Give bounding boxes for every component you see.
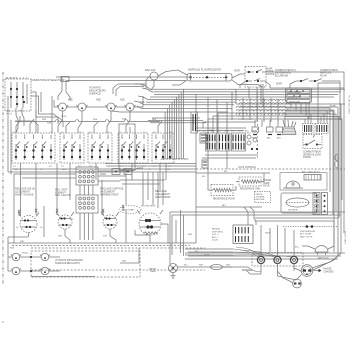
connector P2 (control board): [76, 195, 98, 213]
svg-text:ECLAIRAGE: ECLAIRAGE: [275, 74, 289, 77]
label wire tags above relays: [196, 131, 257, 133]
svg-text:DESSERRAGE: DESSERRAGE: [275, 72, 291, 75]
svg-text:L1&N: L1&N: [212, 240, 218, 242]
svg-text:PORTE: PORTE: [267, 74, 275, 76]
mark bottom-left: [2, 321, 4, 323]
svg-text:N2E: N2E: [93, 119, 98, 121]
sonde dome RT1: [283, 181, 303, 188]
masse chassis plug P3: [301, 265, 321, 277]
fluorescent lamp FL1: [187, 71, 240, 82]
wire lamp row connections: [54, 96, 143, 133]
pin strip J2: [322, 193, 328, 215]
terminal stud T1: [257, 247, 264, 271]
indicator lamp DS3: [106, 103, 117, 111]
svg-text:N2E: N2E: [122, 119, 127, 121]
svg-text:(2): (2): [40, 227, 43, 229]
relay header RY2: [218, 133, 230, 151]
svg-text:RELAIS: RELAIS: [212, 228, 220, 231]
svg-text:AMPOULE: AMPOULE: [320, 72, 332, 75]
svg-text:VERROUILLAGE: VERROUILLAGE: [303, 153, 321, 156]
thermal cutout K1: [18, 210, 20, 216]
svg-text:N2E: N2E: [47, 123, 52, 125]
wire relay buses: [185, 234, 345, 259]
component dark block 1: [200, 133, 208, 143]
svg-text:BLC: BLC: [222, 205, 227, 207]
wire switch to elements: [21, 163, 167, 205]
ballast B1: [145, 69, 187, 90]
label ar cond: [302, 171, 321, 174]
wire P1-P2 links: [80, 185, 93, 195]
svg-text:N2E: N2E: [226, 265, 231, 267]
svg-text:BLC: BLC: [203, 131, 207, 133]
wire S3 to right rail: [290, 81, 340, 124]
wire plug drops: [255, 112, 285, 127]
svg-text:NOIR: NOIR: [61, 116, 67, 118]
label ampoule fluorescente: [188, 69, 222, 72]
svg-text:RESISTANCE GRIL: RESISTANCE GRIL: [240, 188, 261, 191]
label N2E lamp row: [68, 99, 145, 105]
wire crossover scallops: [236, 99, 289, 115]
connector strip right: [304, 175, 321, 181]
svg-text:MOTEUR: MOTEUR: [288, 210, 298, 212]
svg-text:N2E: N2E: [199, 265, 204, 267]
label ventilateur attenant: [283, 225, 337, 238]
commutateur element 1 (double, dashed box): [12, 132, 55, 168]
svg-text:BALLAST: BALLAST: [145, 69, 156, 72]
wire right buses: [236, 104, 345, 119]
label verrouillage: [303, 151, 321, 160]
wire bus under switches: [8, 159, 196, 173]
wire P1 leads right: [98, 168, 143, 181]
label relais: [212, 228, 224, 242]
label E1: [16, 227, 43, 229]
switch S3 eclairage: [296, 79, 331, 83]
connector block CB1: [303, 124, 314, 134]
tall enclosure clock-bypass: [119, 124, 135, 170]
wire element row: [8, 205, 196, 246]
wire right column extensions: [330, 125, 339, 218]
connector fan (hatched): [282, 120, 297, 135]
element surface E3: [101, 212, 119, 229]
connector plugs row (noir): [252, 127, 283, 140]
label sonde temp: [263, 180, 272, 188]
wire P1 leads left: [14, 174, 76, 237]
svg-text:COMMUTATEUR: COMMUTATEUR: [303, 151, 321, 154]
thermal cutout K2: [35, 209, 37, 215]
wire ampoule leads: [295, 221, 334, 249]
svg-text:SURFACE BRULANTS: SURFACE BRULANTS: [55, 262, 80, 265]
element surface E4 (heavy): [137, 210, 163, 235]
indicator lamp DS4: [125, 103, 136, 111]
thermal cutout K3: [56, 209, 58, 215]
component small circles right of relays: [247, 135, 258, 150]
wire verticals through scallops: [243, 98, 278, 122]
svg-text:NOIR: NOIR: [267, 69, 273, 71]
svg-text:FOUR: FOUR: [320, 75, 327, 77]
stud extra: [292, 259, 294, 261]
wire relay S-curves: [244, 207, 256, 225]
svg-text:AVANT DROIT: AVANT DROIT: [155, 196, 171, 199]
wire section divider dashed: [257, 92, 259, 160]
svg-text:AR. COND. AV. PL.: AR. COND. AV. PL.: [302, 171, 321, 174]
component dark block 2: [202, 160, 208, 168]
label left captage: [55, 189, 71, 198]
wire voyants to motor: [120, 248, 139, 263]
label reglage avant gauche: [15, 188, 35, 197]
svg-text:P(1)B: P(1)B: [22, 253, 28, 255]
voyant brulant L1: [11, 253, 21, 261]
svg-text:TEMP.: TEMP.: [263, 183, 270, 185]
wire steps to relay headers: [203, 113, 256, 133]
label voyants brulants: [55, 259, 83, 265]
label fil secteur (rotated): [344, 95, 350, 245]
wire harness left verticals: [140, 89, 184, 159]
label switch-row wires: [42, 116, 157, 121]
commutateur selecteur S1 (top-left, dashed box with contacts): [5, 77, 31, 115]
svg-text:SOL. 1: SOL. 1: [212, 234, 220, 236]
svg-text:NOIR: NOIR: [238, 131, 243, 133]
wire top bus L1: [56, 77, 189, 100]
svg-text:ARR. GAUCHE: ARR. GAUCHE: [55, 194, 71, 197]
voyant brulant L2: [11, 267, 21, 275]
svg-text:NO: NO: [7, 111, 10, 113]
label P1 noir: [100, 174, 106, 176]
svg-text:BLC: BLC: [224, 171, 229, 173]
svg-text:N2E: N2E: [120, 99, 125, 102]
svg-text:BLC: BLC: [277, 138, 281, 140]
svg-text:HAU. PUITS: HAU. PUITS: [300, 235, 313, 238]
svg-text:PORTE: PORTE: [303, 157, 311, 159]
svg-text:N2E: N2E: [188, 234, 193, 236]
svg-text:P1 P2: P1 P2: [6, 114, 13, 116]
voyants brulants enclosure: [31, 248, 205, 277]
svg-text:RESISTANCE FOUR: RESISTANCE FOUR: [213, 198, 235, 201]
wire band through bundle: [148, 118, 206, 123]
commutateur verrouillage porte S4: [303, 135, 322, 149]
label interrupteur: [267, 69, 275, 76]
thermal cutout K5: [122, 205, 124, 211]
wire top-left drop: [41, 92, 52, 112]
svg-text:BLC: BLC: [267, 138, 271, 140]
wire relay area links: [196, 128, 258, 158]
wire door switch leads down: [249, 84, 263, 107]
thermal cutout K4: [102, 209, 104, 215]
label protecteur: [141, 206, 156, 208]
svg-text:P2E: P2E: [103, 236, 107, 238]
wire lamp feeders right: [113, 84, 146, 96]
svg-text:SONDE: SONDE: [263, 180, 272, 182]
wire clock right horizontals: [285, 106, 342, 201]
svg-text:N2E: N2E: [42, 119, 47, 121]
svg-text:BLC: BLC: [295, 247, 300, 249]
resistance gril R1: [239, 177, 261, 191]
wire harness right drops: [196, 89, 236, 243]
svg-text:CARR.: CARR.: [150, 270, 157, 273]
wire studs to rails: [261, 225, 294, 252]
terminal stud T2: [274, 247, 281, 271]
wire mid buses: [170, 210, 345, 264]
svg-text:NOIR: NOIR: [252, 131, 257, 133]
commutateur element 4: [118, 132, 148, 168]
svg-text:N2E: N2E: [58, 236, 63, 238]
horloge A1 (clock block): [286, 88, 312, 104]
svg-text:COMMUTATEUR SELECTEUR: COMMUTATEUR SELECTEUR: [31, 79, 65, 82]
svg-text:N2E: N2E: [68, 99, 73, 102]
wire resistor leads: [196, 167, 345, 207]
wire left rail segment: [8, 96, 11, 175]
ventilation tournebroche box: [255, 192, 271, 203]
label bornier: [242, 270, 253, 272]
label element tags: [20, 219, 107, 243]
label voyants surface: [89, 87, 106, 96]
svg-text:AMPOULE: AMPOULE: [318, 257, 329, 260]
svg-text:N2E: N2E: [96, 99, 101, 102]
svg-text:SURFACE: SURFACE: [89, 92, 101, 95]
wire twist symbols: [335, 154, 338, 167]
svg-text:BLC: BLC: [247, 133, 251, 135]
wire top bus L2: [66, 81, 186, 101]
svg-text:MASSE: MASSE: [324, 268, 333, 271]
component bar block left: [191, 112, 198, 133]
svg-text:ARRIERE DROIT: ARRIERE DROIT: [100, 193, 119, 196]
svg-text:BLC: BLC: [231, 131, 235, 133]
label commutateur ampoule four: [320, 69, 338, 77]
svg-text:AUT. L: AUT. L: [212, 236, 219, 239]
svg-text:VENTILATEUR: VENTILATEUR: [300, 230, 315, 233]
ampoule four E5: [315, 246, 329, 260]
wire harness right horizontals: [165, 89, 345, 112]
label commutateur eclairage: [275, 69, 296, 77]
masse chassis plug P4: [278, 271, 302, 288]
commutateur element 2: [60, 132, 84, 168]
svg-text:PROTECTEUR: PROTECTEUR: [141, 206, 156, 208]
relay header RY3: [232, 133, 246, 151]
svg-text:NOIR: NOIR: [234, 71, 240, 73]
svg-text:NOIR: NOIR: [276, 84, 282, 86]
wire bottom-right links: [246, 240, 341, 280]
terminal stud T3: [290, 247, 297, 271]
bornier terminal block: [252, 253, 303, 267]
svg-text:N2E: N2E: [122, 261, 127, 263]
svg-text:COMMUTATEUR: COMMUTATEUR: [320, 69, 338, 72]
svg-text:FIL DU SECT.: FIL DU SECT.: [344, 231, 346, 245]
wire fluorescent leads: [172, 74, 262, 87]
svg-text:BLC: BLC: [184, 265, 189, 267]
svg-text:CHASSIS: CHASSIS: [324, 270, 335, 273]
svg-text:NOIR: NOIR: [196, 131, 201, 133]
label reglage avant droit: [155, 190, 171, 199]
component fuses mid: [112, 169, 132, 175]
wire right rails: [334, 75, 344, 252]
label switch-row bottom: [14, 169, 171, 171]
svg-text:N1E: N1E: [10, 248, 15, 250]
svg-text:NO: NO: [202, 176, 206, 178]
wire left dash-dot rail: [2, 72, 4, 285]
wire voyants: [8, 237, 205, 277]
pin strip J1: [313, 193, 320, 215]
limite temp ellipse: [119, 206, 141, 214]
voyant brulant L3: [40, 253, 50, 261]
wire S1 side corners: [15, 92, 63, 133]
voyant brulant L4: [40, 267, 50, 275]
svg-text:FIL DU SECTEUR: FIL DU SECTEUR: [348, 95, 350, 114]
svg-text:BROCHE: BROCHE: [256, 199, 266, 201]
svg-text:ATT. FOUR: ATT. FOUR: [300, 233, 312, 236]
label masse chassis: [324, 268, 335, 274]
wire S1 outputs: [7, 108, 24, 133]
wire P2 drops: [80, 213, 93, 240]
wire mid drops to elements: [120, 172, 165, 208]
svg-text:NOIR: NOIR: [265, 233, 271, 235]
resistance four R2: [211, 185, 235, 201]
enclosure dome-strip: [280, 173, 327, 191]
wire drops to CB blocks: [305, 111, 327, 124]
svg-text:FOUR: FOUR: [263, 186, 270, 188]
svg-text:COMMUTATEUR (1): COMMUTATEUR (1): [275, 69, 296, 72]
label S1: [31, 77, 69, 83]
relay contact box K5: [233, 225, 253, 244]
svg-text:AVANT GAUCHE: AVANT GAUCHE: [15, 193, 34, 196]
svg-text:BLC: BLC: [217, 131, 221, 133]
connector P1 (control board): [76, 167, 98, 185]
wire door switch to right rail: [240, 72, 344, 88]
element surface E2: [56, 212, 74, 229]
wire motor line: [178, 264, 249, 269]
commutateur element 3: [88, 132, 112, 168]
element surface E1: [18, 213, 39, 233]
svg-text:N2E: N2E: [152, 119, 157, 121]
convection motor box: [281, 193, 317, 213]
wire terminal fan: [185, 247, 291, 272]
svg-text:N2E: N2E: [209, 130, 214, 132]
label masse moteur: [149, 268, 157, 274]
svg-text:DISP-ENCL: DISP-ENCL: [212, 231, 224, 233]
svg-text:AMPOULE FLUORESCENTE: AMPOULE FLUORESCENTE: [188, 69, 222, 72]
commutateur element 5: [152, 132, 174, 168]
svg-text:LOCK CONTROL: LOCK CONTROL: [238, 167, 257, 169]
indicator lamp DS2: [77, 103, 88, 111]
moteur ventilateur M1: [169, 264, 178, 273]
ground chassis M1: [171, 273, 176, 279]
indicator lamp DS1: [57, 103, 68, 111]
interrupteur porte S2 (dashed box): [245, 67, 266, 88]
wire clock leads: [291, 103, 309, 120]
label noir S3: [276, 84, 282, 86]
svg-text:(1): (1): [16, 227, 19, 229]
wire harness feeder curves: [112, 84, 152, 112]
wire switch feeders top: [16, 110, 162, 133]
wire cross bus y121 (bumped): [15, 120, 160, 122]
connector block CB2: [315, 124, 328, 134]
svg-text:NOIR: NOIR: [224, 131, 229, 133]
relay header RY1: [206, 133, 217, 151]
label reglage arriere droit: [100, 188, 124, 197]
